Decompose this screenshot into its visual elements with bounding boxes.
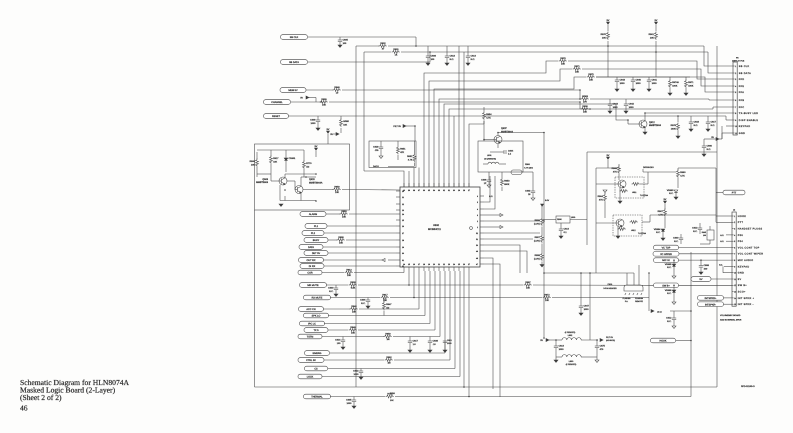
svg-text:21: 21 <box>438 263 440 266</box>
wire <box>638 265 640 285</box>
svg-text:DET 5V: DET 5V <box>312 252 321 255</box>
wire <box>595 168 597 273</box>
node junction <box>429 51 431 53</box>
svg-text:PTT: PTT <box>738 221 744 224</box>
wire <box>406 125 415 127</box>
wire <box>388 259 396 261</box>
wire <box>342 342 344 347</box>
wire <box>541 244 543 253</box>
svg-text:10K: 10K <box>583 111 587 114</box>
svg-text:COR: COR <box>307 272 313 275</box>
wire <box>555 348 557 360</box>
diode CR601 <box>284 157 296 161</box>
wire <box>664 217 666 228</box>
ground <box>487 185 491 187</box>
resistor R664 <box>598 194 607 202</box>
svg-text:FILT 5V: FILT 5V <box>393 125 401 128</box>
svg-text:1: 1 <box>477 226 478 229</box>
wire <box>396 190 400 192</box>
wire <box>589 273 591 340</box>
wire <box>383 298 385 303</box>
capacitor C638 <box>428 340 439 346</box>
wire <box>679 284 733 286</box>
pin 11 5V <box>732 278 741 281</box>
ground <box>706 129 710 131</box>
wire <box>703 139 705 146</box>
wire <box>428 183 430 187</box>
wire <box>256 152 258 159</box>
capacitor <box>443 341 447 343</box>
wire <box>327 225 396 227</box>
resistor None <box>620 190 628 193</box>
wire <box>673 311 675 318</box>
pin 1 HOOK <box>732 215 746 218</box>
svg-text:N.C.: N.C. <box>667 266 672 269</box>
svg-text:34: 34 <box>433 189 435 192</box>
wire <box>484 264 500 397</box>
wire <box>580 308 582 313</box>
wire <box>626 273 628 285</box>
wire <box>480 238 484 240</box>
capacitor C642 <box>624 103 635 109</box>
ground <box>672 326 676 328</box>
node pad RESET <box>264 114 289 119</box>
wire <box>354 272 404 274</box>
wire <box>308 61 430 63</box>
svg-text:1M: 1M <box>387 362 390 365</box>
svg-text:MIC HI: MIC HI <box>662 259 670 262</box>
wire <box>340 128 342 133</box>
wire <box>484 139 494 141</box>
wire <box>280 200 316 202</box>
svg-text:R675: R675 <box>588 73 594 76</box>
pin 9 DISP ENABLE <box>733 119 758 122</box>
svg-text:FFD: FFD <box>739 78 745 81</box>
svg-text:R658: R658 <box>535 254 541 257</box>
svg-text:N.C.: N.C. <box>489 195 493 198</box>
svg-text:10K: 10K <box>526 287 530 290</box>
svg-text:MMBT3904: MMBT3904 <box>501 131 514 134</box>
node pad MEM 5V <box>280 88 306 93</box>
wire <box>678 115 726 117</box>
wire <box>721 126 723 139</box>
wire <box>439 271 441 337</box>
node junction <box>315 200 317 202</box>
capacitor C641 <box>647 79 658 85</box>
svg-text:VR666: VR666 <box>665 289 672 292</box>
svg-text:CTRL 5V: CTRL 5V <box>306 359 316 362</box>
ground <box>554 360 558 362</box>
wire <box>480 208 484 210</box>
svg-text:100K: 100K <box>671 127 677 130</box>
node junction <box>315 173 317 175</box>
wire <box>587 151 717 153</box>
resistor None <box>618 228 626 231</box>
wire <box>642 221 650 223</box>
svg-text:(1.8V): (1.8V) <box>534 239 540 242</box>
wire <box>570 219 587 221</box>
wire <box>644 113 646 121</box>
node junction <box>607 45 609 47</box>
node junction <box>677 115 679 117</box>
node index dot <box>470 227 473 230</box>
svg-text:10K: 10K <box>322 104 326 107</box>
wire <box>309 97 316 99</box>
svg-text:N.C.: N.C. <box>361 302 366 305</box>
capacitor C613 <box>692 227 702 233</box>
svg-text:MEM 5V: MEM 5V <box>288 89 298 92</box>
resistor R602 <box>379 42 387 51</box>
inductor <box>562 355 581 357</box>
svg-text:17: 17 <box>418 263 420 266</box>
wire <box>648 273 650 311</box>
svg-text:R657: R657 <box>535 236 541 239</box>
transistor Q607 <box>494 136 502 144</box>
svg-text:R671: R671 <box>688 81 694 84</box>
power 5.6V arrow <box>541 204 544 206</box>
wire <box>413 271 415 298</box>
capacitor C602 <box>525 190 535 196</box>
wire <box>342 189 400 192</box>
svg-text:18: 18 <box>423 263 425 266</box>
wire <box>328 315 425 317</box>
wire <box>532 193 534 198</box>
wire <box>499 163 506 165</box>
node pad TX 5 <box>304 328 328 333</box>
svg-text:30: 30 <box>453 189 455 192</box>
node junction <box>483 139 485 141</box>
wire <box>356 45 379 47</box>
node junction <box>648 272 650 274</box>
svg-text:INT SPKR -: INT SPKR - <box>738 303 754 306</box>
ground <box>334 294 338 296</box>
svg-text:R654: R654 <box>486 113 492 116</box>
svg-text:2: 2 <box>734 221 735 224</box>
svg-text:GND: GND <box>738 272 744 275</box>
svg-text:30: 30 <box>402 252 404 255</box>
svg-text:5.6V: 5.6V <box>545 199 550 202</box>
wire <box>458 183 460 187</box>
svg-text:P04: P04 <box>738 240 744 243</box>
svg-text:PL1: PL1 <box>314 225 319 228</box>
wire <box>501 187 503 191</box>
svg-text:C613: C613 <box>692 227 698 230</box>
wire <box>581 356 597 358</box>
wire <box>394 359 450 361</box>
svg-text:38: 38 <box>413 189 415 192</box>
wire <box>413 183 415 187</box>
svg-text:Q606: Q606 <box>262 178 268 181</box>
svg-text:VOL CONT WIPER: VOL CONT WIPER <box>738 253 764 256</box>
svg-text:R646: R646 <box>350 326 356 329</box>
wire <box>418 168 420 188</box>
svg-text:R678: R678 <box>671 124 677 127</box>
wire <box>488 182 490 185</box>
svg-text:N.C.: N.C. <box>667 320 672 323</box>
wire <box>726 119 733 121</box>
wire <box>680 234 682 238</box>
capacitor C618 <box>689 121 700 127</box>
box U611 dashed <box>615 177 644 198</box>
ground <box>672 276 676 278</box>
wire <box>424 61 558 187</box>
svg-text:10K: 10K <box>273 160 277 163</box>
wire <box>704 138 716 140</box>
ground <box>618 201 622 203</box>
svg-text:C643: C643 <box>620 79 626 82</box>
wire <box>434 271 436 330</box>
wire <box>340 116 342 119</box>
wire <box>324 359 384 361</box>
svg-text:46: 46 <box>20 404 28 413</box>
resistor R613 <box>345 268 353 277</box>
svg-text:4.7K: 4.7K <box>680 174 685 177</box>
node junction <box>589 108 591 110</box>
svg-text:R617: R617 <box>273 157 279 160</box>
svg-text:10: 10 <box>735 125 737 128</box>
wire <box>677 116 679 122</box>
ground <box>341 347 345 349</box>
wire <box>541 227 543 235</box>
svg-text:N.C.: N.C. <box>711 124 716 127</box>
svg-text:13: 13 <box>734 291 736 294</box>
capacitor C898 <box>699 264 710 270</box>
wire <box>607 160 609 164</box>
svg-text:C638: C638 <box>433 340 439 343</box>
capacitor C605 <box>346 399 356 405</box>
svg-text:31: 31 <box>448 189 450 192</box>
resistor R650 <box>384 332 392 341</box>
wire <box>270 164 272 172</box>
capacitor C643 <box>615 79 626 85</box>
ground <box>631 89 635 91</box>
svg-text:1: 1 <box>734 215 735 218</box>
svg-text:C602: C602 <box>525 190 531 193</box>
wire <box>444 271 446 353</box>
svg-text:R613: R613 <box>346 268 352 271</box>
node junction <box>468 396 470 398</box>
ground <box>338 45 342 47</box>
wire <box>579 102 581 109</box>
wire <box>627 120 629 124</box>
ground <box>279 204 283 206</box>
resistor W663 <box>581 95 589 104</box>
svg-text:HOOK: HOOK <box>738 215 746 218</box>
wire <box>459 271 461 377</box>
svg-text:SB CLK: SB CLK <box>290 36 299 39</box>
svg-text:37: 37 <box>418 189 420 192</box>
svg-text:R617: R617 <box>382 293 388 296</box>
wire <box>303 189 333 191</box>
capacitor C675 <box>595 345 606 351</box>
svg-text:10: 10 <box>734 272 736 275</box>
wire <box>725 116 727 120</box>
svg-text:22: 22 <box>443 263 445 266</box>
box bias network <box>255 144 350 210</box>
svg-text:10K: 10K <box>351 332 355 335</box>
wire <box>560 231 562 236</box>
wire <box>700 243 710 245</box>
pin 5 P04 <box>732 240 743 243</box>
wire <box>607 41 609 46</box>
wire <box>604 192 606 194</box>
svg-text:R662: R662 <box>386 356 392 359</box>
pin 8 MIC AUDIO <box>732 259 753 262</box>
svg-text:9: 9 <box>734 265 735 268</box>
arrow right <box>540 339 549 343</box>
node pad HOOK <box>651 338 676 343</box>
resistor R617 <box>270 156 280 164</box>
wire <box>677 131 679 136</box>
wire <box>541 262 543 265</box>
svg-text:FLASH84: FLASH84 <box>635 297 643 300</box>
svg-text:Q612: Q612 <box>649 121 655 124</box>
svg-text:TX-BUSY LED: TX-BUSY LED <box>739 112 758 115</box>
ground <box>428 350 432 352</box>
power 5V arrow <box>664 198 667 203</box>
capacitor C614 <box>466 55 477 61</box>
wire <box>363 52 365 171</box>
resistor R656 <box>534 218 544 226</box>
wire <box>483 107 485 112</box>
node pad CTRL 5V <box>298 358 324 363</box>
capacitor C614 <box>559 228 570 234</box>
wire <box>284 174 286 178</box>
svg-text:10K: 10K <box>650 36 654 39</box>
wire <box>484 226 500 228</box>
wire <box>664 204 666 209</box>
svg-text:R639: R639 <box>321 98 327 101</box>
svg-text:31: 31 <box>402 259 404 262</box>
wire <box>580 273 582 306</box>
wire <box>322 376 460 378</box>
svg-text:7.776 MHZ: 7.776 MHZ <box>524 167 534 170</box>
wire <box>429 271 431 324</box>
wire <box>324 232 396 234</box>
node junction <box>627 119 629 121</box>
wire <box>315 98 317 103</box>
node junction <box>644 112 646 114</box>
wire <box>532 172 534 191</box>
wire <box>690 124 692 129</box>
wire <box>596 348 598 360</box>
wire <box>619 188 621 196</box>
svg-text:MMBT2904: MMBT2904 <box>649 124 662 127</box>
connector P601 3-pin header <box>624 285 643 291</box>
wire <box>542 219 556 221</box>
wire <box>648 77 650 80</box>
resistor R657 <box>534 235 544 243</box>
svg-text:16: 16 <box>413 263 415 266</box>
ground <box>531 198 535 200</box>
wire <box>415 37 417 46</box>
node junction <box>555 339 557 341</box>
resistor R606 <box>250 159 259 167</box>
resistor R639 <box>320 98 328 107</box>
wire <box>596 76 690 78</box>
wire <box>480 220 484 222</box>
svg-text:5: 5 <box>477 201 478 204</box>
svg-text:1000: 1000 <box>613 106 619 109</box>
node pad MR MUTE <box>300 283 327 288</box>
wire <box>328 368 455 370</box>
ground <box>676 136 680 138</box>
node junction <box>543 132 545 134</box>
resistor R647 <box>383 302 393 310</box>
wire <box>484 238 533 240</box>
svg-text:29: 29 <box>458 189 460 192</box>
svg-text:C617: C617 <box>711 121 717 124</box>
wire <box>480 232 484 234</box>
ground <box>408 350 412 352</box>
node pad OUT RX <box>299 258 324 263</box>
svg-text:10K: 10K <box>561 63 565 66</box>
wire <box>360 369 362 372</box>
wire <box>669 77 671 80</box>
wire <box>330 297 380 299</box>
wire <box>323 246 396 248</box>
wire <box>333 133 336 135</box>
ground <box>366 306 370 308</box>
svg-text:R770: R770 <box>306 162 312 165</box>
wire <box>396 213 400 215</box>
resistor R640 <box>350 305 358 314</box>
svg-text:R652: R652 <box>407 155 413 158</box>
wire <box>396 265 400 267</box>
ground <box>668 93 672 95</box>
wire <box>716 46 718 387</box>
wire <box>396 246 400 248</box>
svg-text:R651: R651 <box>400 148 406 151</box>
node junction <box>305 176 307 178</box>
wire <box>285 150 287 158</box>
svg-text:C614: C614 <box>471 55 477 58</box>
wire <box>723 272 732 274</box>
pin 4 FFE <box>733 85 744 88</box>
wire <box>308 36 416 38</box>
wire <box>396 209 400 211</box>
node pad IPC LC <box>300 321 325 326</box>
resistor R718 <box>386 392 394 398</box>
svg-text:R674A: R674A <box>672 81 679 84</box>
svg-text:RX MUTE: RX MUTE <box>312 297 323 300</box>
wire <box>433 183 435 187</box>
wire <box>438 267 440 271</box>
svg-text:MMBT3904A: MMBT3904A <box>309 182 323 185</box>
svg-text:SB CLK: SB CLK <box>739 65 750 68</box>
wire <box>428 267 430 271</box>
resistor W650 <box>340 119 350 127</box>
svg-text:VC TOP: VC TOP <box>662 247 671 250</box>
svg-text:R666: R666 <box>612 167 618 170</box>
wire <box>285 161 287 172</box>
box U612 dashed <box>613 215 642 236</box>
svg-text:10K: 10K <box>342 216 346 219</box>
wire <box>647 172 649 184</box>
node pad RX MUTE <box>304 295 331 300</box>
svg-text:LOCK: LOCK <box>307 376 314 379</box>
wire <box>719 138 722 140</box>
wire <box>469 124 484 187</box>
ground <box>426 63 430 65</box>
node junction <box>589 272 591 274</box>
wire <box>480 263 484 265</box>
wire <box>429 337 431 342</box>
resistor R646 <box>349 326 357 335</box>
resistor R652 <box>407 154 416 162</box>
svg-text:C642: C642 <box>629 103 635 106</box>
wire <box>271 180 279 182</box>
